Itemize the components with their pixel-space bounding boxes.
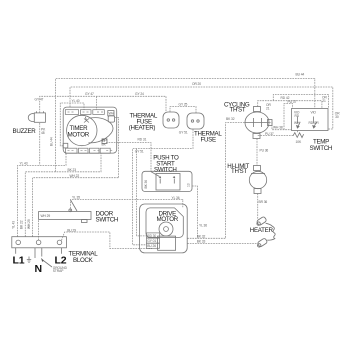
- wire GY 51 second drop to drive motor tab RD30: [137, 149, 147, 236]
- wire BK 22 / BK 23 (terminal block to timer bottom contact): [25, 153, 101, 236]
- svg-text:WH 22: WH 22: [70, 174, 80, 178]
- wire OR 20 (from timer top contact to temp switch right contact): [70, 87, 333, 129]
- svg-text:BLOCK: BLOCK: [73, 257, 94, 264]
- svg-text:WH 38: WH 38: [273, 126, 283, 130]
- svg-text:YL 43: YL 43: [20, 162, 28, 166]
- svg-text:TH'ST: TH'ST: [231, 168, 247, 175]
- cycling thermostat: [245, 107, 272, 139]
- heater bottom spade terminal: [257, 238, 268, 248]
- wire WH 29 / WH 22 (neutral: terminal block right under timer to motor tab): [33, 178, 119, 237]
- temp switch right contact: [313, 117, 317, 129]
- svg-text:WH: WH: [294, 121, 300, 125]
- svg-text:PU 37: PU 37: [265, 132, 274, 136]
- svg-text:GY 51: GY 51: [179, 130, 188, 134]
- svg-text:RD 31: RD 31: [138, 137, 147, 141]
- svg-text:BK 36: BK 36: [144, 180, 148, 189]
- svg-text:(HEATER): (HEATER): [129, 124, 156, 131]
- svg-text:BU 29: BU 29: [67, 228, 76, 232]
- timer pointer flag: [84, 117, 89, 123]
- svg-text:21: 21: [322, 99, 326, 103]
- svg-text:OR 20: OR 20: [192, 82, 201, 86]
- svg-text:RD: RD: [295, 114, 300, 118]
- svg-text:GY 47: GY 47: [35, 98, 44, 102]
- wire BU 44 (top line, left vertical down to BK23 line, right down to temp switch): [56, 79, 315, 172]
- svg-text:RD 30: RD 30: [147, 234, 156, 238]
- heater element coil: [266, 223, 276, 240]
- push switch contact arrows: [151, 172, 160, 184]
- wire junction drop GY47 into timer top contact: [95, 96, 97, 109]
- svg-text:YL 36: YL 36: [199, 223, 207, 227]
- svg-text:PU 37: PU 37: [288, 100, 297, 104]
- wire buzzer bottom drop: [39, 123, 41, 165]
- svg-text:SWITCH: SWITCH: [154, 166, 177, 173]
- svg-text:WH 29: WH 29: [27, 219, 31, 229]
- resistor 10K: [293, 133, 304, 138]
- svg-text:WH 29: WH 29: [41, 214, 51, 218]
- timer left side contact: [63, 143, 68, 148]
- thermal fuse symbol: [187, 113, 204, 129]
- svg-text:YL 40: YL 40: [72, 99, 80, 103]
- wire WH 38 (cycling right to temp switch bottom left): [269, 123, 292, 130]
- svg-text:YL 43: YL 43: [12, 221, 16, 229]
- drive motor outer box: [140, 204, 188, 253]
- wire PU 36 (cycling bottom to hi-limit top): [256, 139, 258, 166]
- thermal fuse (heater) symbol: [163, 112, 179, 128]
- drive motor inner body: [146, 208, 183, 238]
- wire PU 37 lower (cycling bottom junction to resistor): [258, 135, 293, 137]
- svg-text:BU 26: BU 26: [147, 244, 156, 248]
- wire PU 37 upper (to temp switch top left): [284, 103, 292, 129]
- svg-text:FUSE: FUSE: [201, 137, 216, 144]
- heater top spade terminal: [256, 216, 267, 226]
- svg-text:HEATER: HEATER: [250, 227, 274, 234]
- svg-text:10K: 10K: [296, 140, 302, 144]
- timer cam / motor shape: [67, 115, 97, 145]
- drive motor left tabs RD30 GY01 BU26: [147, 233, 160, 248]
- wire GY 51 (fuse2 bottom, loop left and down to drive motor tab): [133, 129, 193, 245]
- push to start switch box: [142, 171, 192, 191]
- svg-text:VIO: VIO: [311, 111, 317, 115]
- svg-text:GY 25: GY 25: [179, 102, 188, 106]
- svg-text:SWITCH: SWITCH: [96, 216, 119, 223]
- wire RD 42 (cycling top tab loop to temp switch top): [258, 101, 322, 109]
- timer motor box: [63, 107, 116, 153]
- temp switch box: [292, 109, 329, 131]
- svg-text:GY 24: GY 24: [135, 92, 144, 96]
- wire push switch right to motor right junction YL 36: [192, 186, 198, 238]
- wire GY 47 / GY 24 (buzzer top to timer and thermal fuse 1): [40, 96, 166, 113]
- svg-text:30: 30: [335, 115, 339, 119]
- temp switch left contact: [297, 117, 301, 129]
- terminal block: [12, 237, 67, 254]
- door switch: [39, 200, 91, 223]
- svg-text:MOTOR: MOTOR: [157, 216, 179, 223]
- svg-text:MOTOR: MOTOR: [68, 132, 90, 139]
- timer bottom contact row: [66, 148, 113, 153]
- svg-text:BK 23: BK 23: [68, 168, 77, 172]
- svg-text:21: 21: [266, 107, 270, 111]
- svg-text:YL 36: YL 36: [172, 196, 180, 200]
- svg-text:BK 33: BK 33: [197, 240, 206, 244]
- wire BK 33 (drive motor right to heater bottom terminal): [187, 243, 257, 245]
- svg-text:BK 32: BK 32: [197, 235, 206, 239]
- wire BU 29 (terminal L2 to drive motor tab): [62, 232, 153, 249]
- drive motor bottom block: [158, 236, 176, 250]
- svg-text:BK 32: BK 32: [226, 117, 235, 121]
- svg-text:GY 01: GY 01: [147, 239, 156, 243]
- svg-text:13: 13: [187, 183, 191, 187]
- timer right side contact (RD31 exit): [102, 139, 107, 144]
- wire BR 36 (hi-limit bottom to heater top terminal): [257, 194, 259, 220]
- svg-text:STRAP: STRAP: [53, 269, 64, 273]
- svg-text:WH: WH: [109, 112, 115, 116]
- svg-text:BK 22: BK 22: [20, 220, 24, 229]
- drive motor circle: [159, 222, 173, 236]
- svg-text:GY 47: GY 47: [85, 92, 94, 96]
- timer WH connector (top right): [108, 111, 115, 123]
- svg-text:48: 48: [41, 131, 45, 135]
- ground strap at N terminal: [35, 248, 52, 267]
- svg-text:N: N: [35, 263, 42, 275]
- svg-text:PU 36: PU 36: [260, 148, 269, 152]
- hi-limit thermostat: [249, 166, 266, 194]
- svg-text:L1: L1: [13, 255, 25, 267]
- svg-text:SWITCH: SWITCH: [310, 145, 333, 152]
- wire GY 25 (fuse1 top to fuse2 top): [170, 107, 196, 114]
- svg-text:L2: L2: [55, 255, 67, 267]
- buzzer: [28, 111, 45, 122]
- svg-text:RD OR: RD OR: [309, 121, 320, 125]
- svg-text:TH'ST: TH'ST: [230, 106, 246, 113]
- wire YL 35 / YL 36 (door switch to drive motor top): [71, 199, 183, 211]
- svg-text:BU 44: BU 44: [296, 72, 305, 76]
- svg-text:BUZZER: BUZZER: [13, 128, 37, 135]
- wire RD 42 branch (upper parallel into temp switch): [273, 95, 328, 109]
- wire temp switch left contact to resistor: [296, 131, 298, 134]
- wire YL 40 (left vertical to timer top contact): [60, 103, 84, 146]
- wire BK 32 (drive motor right up to cycling thermostat left): [187, 123, 245, 239]
- svg-text:GY 51: GY 51: [135, 149, 144, 153]
- wire N to door switch: [38, 220, 40, 241]
- svg-text:BU 44: BU 44: [50, 137, 54, 146]
- wire RD 31 (timer right contact to push-to-start switch): [106, 143, 151, 172]
- wire YL 43 (terminal L1 up and right to timer bottom contact): [18, 153, 66, 236]
- chassis ground mark: [27, 257, 31, 263]
- svg-text:BR 36: BR 36: [259, 200, 268, 204]
- svg-text:YL 35: YL 35: [72, 196, 80, 200]
- timer top contact row: [65, 110, 104, 115]
- wire timer WH connector drop to neutral: [115, 117, 119, 177]
